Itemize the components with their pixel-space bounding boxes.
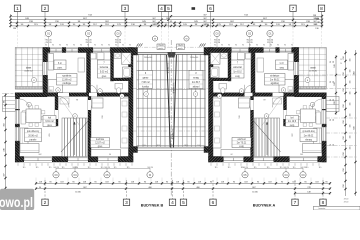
kitchen door gap [251, 100, 254, 110]
svg-text:6,91 m2: 6,91 m2 [287, 121, 296, 123]
stairs [62, 118, 87, 157]
svg-text:taras: taras [26, 67, 32, 70]
svg-text:96: 96 [230, 154, 232, 156]
grid bubble 6 bottom [212, 180, 214, 199]
svg-text:12,07 m2: 12,07 m2 [236, 143, 246, 145]
svg-text:12,89 m2: 12,89 m2 [62, 79, 72, 81]
top dimension line 3 [11, 22, 323, 24]
svg-text:258: 258 [343, 184, 345, 187]
svg-text:20: 20 [340, 63, 342, 65]
kitchen lower counter [221, 150, 251, 157]
grid bubble 7 top [292, 12, 294, 28]
windows in south wall [290, 157, 318, 163]
svg-text:302: 302 [300, 154, 303, 156]
svg-text:130: 130 [315, 28, 318, 30]
hall cabinet [273, 98, 282, 104]
stair break line [61, 121, 88, 152]
left vertical dimension chain [5, 93, 7, 190]
svg-text:5: 5 [167, 6, 170, 12]
svg-text:2: 2 [44, 200, 47, 206]
extension line left end [10, 14, 12, 28]
svg-text:105: 105 [350, 59, 352, 62]
svg-text:115: 115 [36, 167, 39, 169]
svg-text:148: 148 [307, 191, 310, 193]
bathroom partition wall 2 [213, 78, 228, 81]
svg-text:148: 148 [316, 18, 319, 20]
svg-text:2990x500: 2990x500 [144, 57, 152, 59]
svg-text:taras: taras [310, 67, 316, 70]
top dimension line 2 [11, 19, 323, 21]
svg-text:20: 20 [108, 167, 110, 169]
door gap hall-bath [245, 93, 253, 97]
stair arrow [74, 122, 76, 155]
svg-text:258: 258 [343, 88, 345, 91]
top dimension line 1 (overall) [11, 15, 323, 17]
svg-text:258: 258 [343, 152, 345, 155]
lower axis bracket lines [56, 168, 150, 170]
svg-text:90: 90 [45, 45, 47, 47]
svg-text:96: 96 [109, 154, 111, 156]
svg-text:11330: 11330 [252, 192, 258, 194]
svg-text:415: 415 [291, 133, 293, 136]
svg-text:3: 3 [124, 6, 127, 12]
driveway bottom wall [137, 147, 206, 149]
svg-text:115: 115 [293, 167, 296, 169]
svg-text:2: 2 [44, 6, 47, 12]
shower [211, 53, 221, 65]
svg-text:pow.: pow. [279, 68, 284, 70]
washbasin WC [221, 53, 228, 59]
grid bubble 4 bottom [172, 180, 174, 199]
right vertical dimension chain 2 [355, 50, 357, 196]
svg-text:258: 258 [343, 136, 345, 139]
svg-text:7,08 m2: 7,08 m2 [191, 82, 200, 84]
svg-text:8: 8 [320, 6, 323, 12]
svg-text:1: 1 [16, 6, 19, 12]
svg-text:sypialnia: sypialnia [270, 76, 280, 78]
svg-text:20: 20 [333, 81, 335, 83]
svg-text:20: 20 [76, 167, 78, 169]
svg-text:spadek 5%: spadek 5% [173, 83, 175, 94]
svg-text:115: 115 [127, 167, 130, 169]
grid bubble 5 top [168, 12, 170, 28]
terrace (tiled) [15, 48, 43, 90]
svg-text:pok.dzienny: pok.dzienny [302, 131, 315, 133]
right building (mirror) [189, 48, 339, 163]
svg-text:29: 29 [330, 61, 332, 63]
tv cabinet living [21, 112, 26, 124]
svg-text:302: 302 [38, 154, 41, 156]
svg-text:20: 20 [246, 167, 248, 169]
svg-text:4: 4 [171, 200, 174, 206]
driveway top gates [137, 51, 206, 53]
svg-text:105: 105 [350, 125, 352, 128]
kitchen counter east strip [213, 98, 221, 148]
svg-text:20: 20 [333, 119, 335, 121]
svg-text:98: 98 [76, 100, 78, 102]
windows in south wall [24, 157, 52, 163]
svg-text:193: 193 [197, 145, 200, 147]
left leader lines [2, 93, 15, 95]
svg-text:11330: 11330 [75, 192, 81, 194]
svg-text:90: 90 [101, 45, 103, 47]
porch steps west [326, 97, 339, 112]
sub-wall dimension ticks [17, 163, 19, 166]
grid bubble 2 top [44, 12, 46, 28]
svg-text:poch.: poch. [178, 48, 183, 50]
room label lazienka gorna [98, 60, 111, 78]
drain channel inlet [168, 53, 176, 58]
svg-text:258: 258 [343, 56, 345, 59]
entry door in west lower wall [322, 99, 326, 109]
right leader lines [299, 74, 357, 76]
desk room 1 [257, 58, 264, 72]
window axis circle [85, 30, 91, 36]
shower [122, 53, 132, 65]
svg-text:362: 362 [49, 90, 52, 92]
svg-text:29x20: 29x20 [178, 45, 184, 47]
svg-text:6,91 m2: 6,91 m2 [45, 121, 54, 123]
kitchen fridge cupboard [92, 98, 103, 108]
kitchen lower counter [91, 150, 121, 157]
sofa living room L [314, 128, 322, 145]
svg-text:115: 115 [23, 167, 26, 169]
svg-text:130: 130 [13, 28, 16, 30]
driveway top labels [157, 44, 165, 49]
bathroom partition wall [228, 53, 231, 82]
svg-text:1815: 1815 [156, 145, 160, 147]
interior wall rooms 1-2 [251, 53, 255, 93]
svg-text:90: 90 [52, 45, 54, 47]
chairs [23, 111, 26, 114]
svg-text:20: 20 [304, 167, 306, 169]
svg-text:115: 115 [88, 167, 91, 169]
svg-text:415: 415 [49, 133, 51, 136]
interior wall stair-kitchen [251, 96, 254, 156]
terrace bottom edge [299, 87, 327, 90]
terrace number circle [32, 78, 37, 83]
svg-text:20: 20 [333, 144, 335, 146]
exterior wall south [15, 157, 133, 163]
svg-text:BUDYNEK A: BUDYNEK A [253, 203, 276, 207]
door gap hall-living [55, 110, 58, 119]
svg-text:90: 90 [242, 45, 244, 47]
grid bubble 2 bottom [44, 180, 46, 199]
svg-text:290: 290 [238, 115, 240, 118]
kitchen door gap [88, 100, 91, 110]
washbasin WC [114, 53, 121, 59]
svg-text:7: 7 [292, 6, 295, 12]
svg-text:115: 115 [101, 167, 104, 169]
exterior wall west upper [294, 48, 299, 97]
grid bubble 8 top [321, 12, 323, 28]
svg-text:29x20: 29x20 [158, 45, 164, 47]
bathtub [123, 67, 132, 78]
svg-text:90: 90 [115, 45, 117, 47]
wardrobe room 1 [48, 54, 54, 71]
lower window axis circles [53, 172, 59, 178]
svg-text:105: 105 [350, 103, 352, 106]
svg-text:90: 90 [263, 45, 265, 47]
svg-text:owo.pl: owo.pl [0, 194, 33, 210]
svg-text:90: 90 [59, 45, 61, 47]
door arc room1 [273, 96, 284, 107]
svg-text:20: 20 [333, 99, 335, 101]
svg-text:105: 105 [350, 114, 352, 117]
room label kuchnia [232, 138, 251, 148]
svg-text:podloga: podloga [63, 83, 72, 85]
living room table [301, 109, 316, 123]
room label salon [300, 129, 317, 142]
svg-text:90: 90 [129, 45, 131, 47]
chairs [316, 111, 319, 114]
svg-text:90: 90 [87, 45, 89, 47]
svg-text:20: 20 [333, 61, 335, 63]
svg-text:1815: 1815 [184, 145, 188, 147]
bottom extension verticals [35, 178, 37, 184]
desk room 1 [78, 58, 85, 72]
room 1 number table [54, 60, 66, 70]
svg-text:29 20: 29 20 [344, 201, 349, 203]
svg-text:90: 90 [94, 45, 96, 47]
kitchen counter east strip [121, 98, 129, 148]
svg-text:90: 90 [228, 45, 230, 47]
svg-text:hol: hol [48, 117, 52, 119]
interior wall stair-kitchen [88, 96, 91, 156]
window in west lower wall [322, 110, 326, 124]
window axis circle [246, 30, 252, 36]
terrace bottom edge [15, 87, 43, 90]
svg-text:258: 258 [343, 104, 345, 107]
stair arrow [266, 122, 268, 155]
stair break line [254, 121, 281, 152]
exterior wall west lower [15, 93, 19, 162]
stairs [255, 118, 280, 157]
extension line right end [321, 14, 323, 28]
window axis circle [115, 30, 121, 36]
svg-text:98: 98 [3, 101, 5, 103]
svg-text:pok.dzienny: pok.dzienny [27, 131, 40, 133]
svg-text:5: 5 [182, 200, 185, 206]
room label lazienka gorna [231, 60, 244, 78]
windows in top wall [50, 48, 62, 53]
svg-text:29 20: 29 20 [344, 199, 349, 201]
svg-text:12,07 m2: 12,07 m2 [95, 143, 105, 145]
room label sypialnia 1 [57, 74, 78, 86]
svg-text:6 nr: 6 nr [279, 62, 283, 65]
svg-text:poch.: poch. [159, 48, 164, 50]
toilet lower cell [219, 84, 227, 90]
svg-text:98: 98 [263, 100, 265, 102]
toilet lower cell [115, 84, 123, 90]
svg-text:298: 298 [313, 15, 316, 17]
driveway top axis line [137, 46, 206, 48]
svg-text:90: 90 [214, 45, 216, 47]
svg-text:kostka: kostka [142, 86, 149, 89]
svg-text:panele: panele [304, 140, 312, 142]
svg-text:29: 29 [330, 144, 332, 146]
grid bubble 3 bottom [126, 180, 128, 199]
svg-text:90: 90 [66, 45, 68, 47]
svg-text:2990x500: 2990x500 [190, 57, 198, 59]
driveway cross axis lines [133, 88, 209, 90]
garage axis circles [152, 36, 157, 41]
room label hol [43, 116, 56, 127]
windows in top wall [280, 48, 292, 53]
svg-text:115: 115 [280, 167, 283, 169]
svg-text:7: 7 [294, 200, 297, 206]
svg-text:garaz: garaz [143, 77, 150, 80]
interior wall horizontal [213, 93, 294, 97]
leader diagonal hall [262, 98, 282, 126]
bottom right short chain [295, 192, 330, 194]
entry door in west lower wall [15, 99, 19, 109]
svg-text:90: 90 [72, 167, 74, 169]
door gap hall-bath [89, 93, 97, 97]
svg-text:105: 105 [350, 147, 352, 150]
svg-text:258: 258 [343, 168, 345, 171]
svg-text:podloga: podloga [270, 83, 279, 85]
bed room 1 [279, 80, 294, 93]
svg-text:29: 29 [330, 81, 332, 83]
tv cabinet living [316, 112, 321, 124]
drawing stamp box [314, 206, 360, 210]
bathroom partition wall 2 [114, 78, 129, 81]
svg-text:90: 90 [235, 45, 237, 47]
terrace door in west wall [294, 62, 299, 75]
bath fixtures top [90, 53, 96, 59]
hall cabinet [60, 98, 69, 104]
door gap room1 [273, 93, 284, 97]
room label salon [25, 129, 42, 142]
window in west lower wall [15, 110, 19, 124]
axis tick clusters row 3-4 [157, 25, 159, 27]
svg-text:90: 90 [122, 45, 124, 47]
svg-text:90: 90 [221, 45, 223, 47]
grid bubble 1 top [17, 12, 19, 28]
room label hol [286, 116, 299, 127]
svg-text:29: 29 [330, 119, 332, 121]
svg-text:spadek 5%: spadek 5% [172, 129, 174, 140]
right vertical dimension chain 3 (short) [335, 55, 337, 115]
exterior wall west upper [43, 48, 48, 97]
bed room 1 [48, 80, 63, 93]
interior wall rooms 1-2 [87, 53, 91, 93]
step wall at living room [295, 93, 327, 97]
svg-text:115: 115 [254, 167, 257, 169]
room label garaz [139, 71, 153, 89]
svg-text:spadek 5%: spadek 5% [168, 107, 170, 118]
room label sypialnia 1 [265, 74, 286, 86]
svg-text:362: 362 [289, 90, 292, 92]
terrace door in west wall [43, 62, 48, 75]
terrace number circle [305, 78, 310, 83]
exterior wall top [43, 48, 133, 53]
porch axis circle [331, 97, 336, 102]
door gap room1 [58, 93, 69, 97]
svg-text:307: 307 [3, 173, 5, 176]
svg-text:6: 6 [209, 6, 212, 12]
svg-text:360: 360 [3, 123, 5, 126]
svg-text:90: 90 [283, 167, 285, 169]
svg-text:115: 115 [306, 167, 309, 169]
exterior wall east (driveway side) [129, 48, 134, 163]
bath fixtures top [246, 53, 252, 59]
leader diagonal hall [60, 98, 80, 126]
exterior wall west lower [322, 93, 326, 162]
svg-text:29: 29 [330, 99, 332, 101]
svg-text:5,03 m2: 5,03 m2 [100, 72, 109, 74]
svg-text:4: 4 [160, 6, 163, 12]
svg-text:115: 115 [228, 167, 231, 169]
watermark owo.pl [0, 189, 34, 210]
porch axis circle [5, 97, 10, 102]
svg-text:Inwestor: Inwestor [319, 207, 326, 210]
svg-text:460: 460 [353, 71, 355, 74]
svg-text:90: 90 [284, 45, 286, 47]
grid axis dashed lines [17, 28, 19, 47]
svg-text:6: 6 [212, 200, 215, 206]
svg-text:20: 20 [151, 167, 153, 169]
svg-text:105: 105 [350, 81, 352, 84]
svg-text:90: 90 [147, 167, 149, 169]
svg-text:kuchnia: kuchnia [237, 139, 246, 141]
grid bubble 5 bottom [183, 180, 185, 199]
svg-text:3: 3 [125, 200, 128, 206]
svg-text:BUDYNEK B: BUDYNEK B [141, 203, 164, 207]
room label garaz [189, 71, 203, 89]
svg-text:29: 29 [340, 59, 342, 61]
hall-living partition wall [55, 96, 58, 126]
svg-text:90: 90 [108, 45, 110, 47]
svg-text:pow.: pow. [58, 68, 63, 70]
right vertical dimension chain 1 [345, 50, 347, 196]
window axis circle [214, 30, 220, 36]
svg-text:lazienka: lazienka [100, 67, 109, 69]
room label kuchnia [91, 138, 110, 148]
svg-text:90: 90 [300, 167, 302, 169]
svg-text:garaz: garaz [192, 77, 199, 80]
door arc room1 [58, 96, 69, 107]
svg-text:6 nr: 6 nr [58, 62, 62, 65]
svg-text:90: 90 [242, 167, 244, 169]
room number circles [56, 88, 61, 93]
living room table [26, 109, 41, 123]
svg-text:kuchnia: kuchnia [96, 139, 105, 141]
svg-text:8: 8 [322, 200, 325, 206]
svg-text:690: 690 [353, 126, 355, 129]
svg-text:20,96 m2: 20,96 m2 [28, 135, 38, 137]
step wall at living room [15, 93, 47, 97]
driveway central drainage channel [167, 55, 171, 148]
svg-text:290: 290 [102, 115, 104, 118]
svg-text:20: 20 [57, 167, 59, 169]
svg-text:90: 90 [53, 167, 55, 169]
svg-text:20,96 m2: 20,96 m2 [303, 135, 313, 137]
door gap hall-living [284, 110, 287, 119]
svg-text:90: 90 [256, 45, 258, 47]
svg-text:spadek 5%: spadek 5% [167, 63, 169, 74]
bathtub [211, 67, 220, 78]
svg-text:20: 20 [287, 167, 289, 169]
svg-text:115: 115 [319, 167, 322, 169]
kitchen fridge cupboard [239, 98, 250, 108]
room number circles [281, 88, 286, 93]
entry door arc [20, 99, 30, 109]
exterior wall south [209, 157, 327, 163]
porch steps west [3, 97, 16, 112]
svg-text:115: 115 [215, 167, 218, 169]
